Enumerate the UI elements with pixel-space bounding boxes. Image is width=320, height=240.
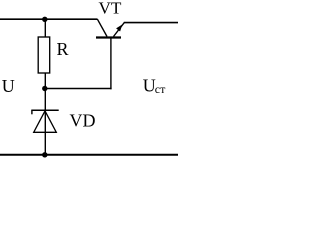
svg-text:R: R bbox=[57, 39, 69, 59]
svg-text:VT: VT bbox=[99, 0, 122, 18]
svg-text:U: U bbox=[2, 76, 15, 96]
svg-text:VD: VD bbox=[70, 111, 96, 131]
svg-text:ст: ст bbox=[155, 82, 166, 96]
